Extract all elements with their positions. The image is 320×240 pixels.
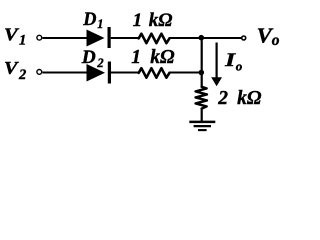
- svg-text:1kΩ: 1kΩ: [133, 10, 173, 31]
- terminal V2: [37, 70, 42, 75]
- resistor R2 1k (bottom): [139, 68, 170, 78]
- node junction bottom (dot): [199, 70, 205, 76]
- resistor R1 1k (top): [139, 34, 170, 44]
- terminal V1: [37, 35, 42, 40]
- wire D1 to R1: [111, 37, 140, 39]
- svg-text:2kΩ: 2kΩ: [217, 88, 262, 109]
- current arrow Io: [211, 43, 222, 87]
- wire R1 to output: [169, 37, 241, 39]
- diode D2: [87, 62, 112, 84]
- svg-text:1kΩ: 1kΩ: [131, 47, 175, 68]
- wire bottom rail left: [42, 71, 87, 73]
- wire R2 to junction: [169, 71, 202, 73]
- node junction top (dot): [199, 35, 205, 41]
- wire D2 to R2: [111, 71, 140, 73]
- diode D1: [87, 27, 111, 48]
- wire vertical junction to R3: [201, 38, 203, 88]
- wire top rail left: [42, 37, 87, 39]
- ground: [189, 122, 215, 130]
- terminal Vo: [242, 36, 246, 40]
- wire R3 to ground: [201, 109, 203, 122]
- resistor R3 2k (vertical): [196, 87, 207, 109]
